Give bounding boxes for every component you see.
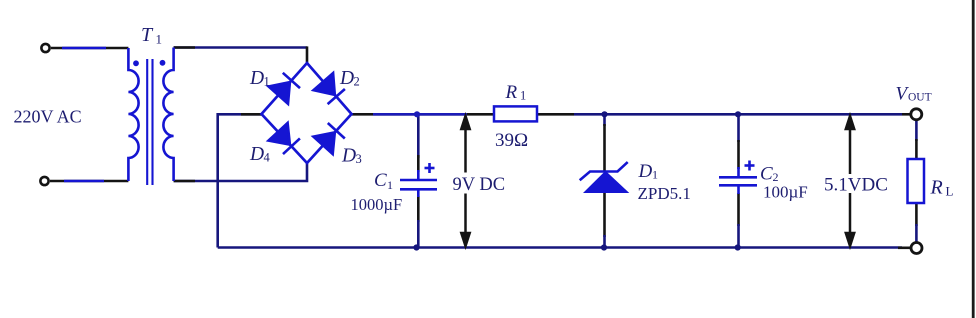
svg-text:C: C (374, 170, 387, 191)
svg-text:R: R (505, 82, 518, 103)
svg-text:1: 1 (387, 178, 393, 192)
svg-text:1: 1 (520, 89, 526, 103)
svg-text:L: L (946, 184, 954, 199)
svg-text:4: 4 (264, 151, 271, 165)
svg-text:OUT: OUT (908, 92, 932, 104)
svg-text:R: R (930, 177, 943, 199)
svg-text:T: T (141, 24, 154, 46)
svg-text:2: 2 (354, 75, 360, 89)
svg-text:D: D (341, 146, 356, 167)
svg-text:D: D (638, 161, 653, 182)
svg-text:C: C (760, 164, 773, 185)
svg-text:ZPD5.1: ZPD5.1 (638, 184, 691, 203)
svg-text:3: 3 (356, 152, 362, 166)
svg-text:D: D (249, 68, 264, 89)
svg-text:5.1VDC: 5.1VDC (824, 175, 888, 196)
svg-text:9V DC: 9V DC (453, 175, 506, 195)
svg-text:1: 1 (652, 168, 658, 182)
svg-text:1: 1 (156, 32, 163, 47)
svg-text:D: D (339, 68, 354, 89)
svg-text:1000µF: 1000µF (351, 195, 403, 214)
svg-text:1: 1 (264, 75, 270, 89)
svg-text:39Ω: 39Ω (495, 130, 528, 151)
svg-text:D: D (249, 144, 264, 165)
svg-text:220V AC: 220V AC (14, 107, 82, 127)
svg-text:100µF: 100µF (763, 183, 808, 202)
